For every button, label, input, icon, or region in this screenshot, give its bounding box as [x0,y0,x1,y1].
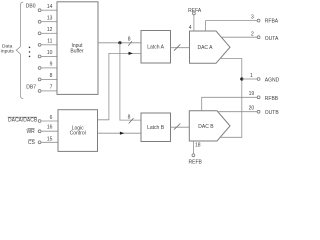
svg-text:DACA/DACB: DACA/DACB [8,118,38,124]
wire logic control to latch B [98,132,142,134]
svg-text:10: 10 [47,50,53,56]
bus slash 8 to latch A [128,36,132,45]
wire logic control to latch A [98,53,142,119]
pin 8 [38,73,57,81]
svg-text:RFBB: RFBB [265,96,279,102]
wire latch B to DAC B [171,124,190,130]
bus slash 8 to latch B [128,114,134,123]
arrow into latch B [120,132,124,135]
input buffer U1 [57,2,98,95]
svg-text:7: 7 [50,85,53,91]
svg-text:AGND: AGND [265,77,280,83]
pin DB0 terminal 14 [38,4,57,12]
svg-text:DB7: DB7 [26,85,36,91]
svg-text:OUTA: OUTA [265,36,279,42]
brace for data inputs [16,2,23,99]
svg-text:20: 20 [249,106,255,112]
svg-text:RFBA: RFBA [265,19,279,25]
wire data bus to latch A [98,42,141,44]
wire AGND bus between DACs [220,59,242,138]
wire and pin RFBA 3 [206,15,279,32]
logic control U2 [58,110,98,152]
svg-text:14: 14 [47,4,53,10]
pin AGND 1 [242,73,280,83]
latch B U4 [141,113,171,142]
svg-text:DAC B: DAC B [198,124,214,130]
svg-text:Latch B: Latch B [147,125,165,131]
svg-text:OUTB: OUTB [265,110,280,116]
DAC A U5 [190,31,231,63]
pin REFA 4 [188,8,202,31]
wire and pin OUTA 2 [221,32,279,43]
svg-text:16: 16 [47,125,53,131]
svg-text:6: 6 [50,115,53,121]
svg-text:CS: CS [28,140,36,146]
pin DACA/DACB 6 [8,115,58,124]
ellipsis dots [29,47,31,58]
svg-text:8: 8 [50,73,53,79]
latch A U3 [141,31,171,64]
svg-text:WR: WR [26,129,35,135]
wire and pin OUTB 20 [218,106,280,117]
svg-text:19: 19 [249,91,255,97]
svg-text:1: 1 [250,73,253,79]
svg-text:4: 4 [189,25,192,31]
svg-text:11: 11 [47,39,52,45]
junction node AGND [240,77,243,80]
pin 10 [38,50,57,58]
svg-text:15: 15 [47,137,53,143]
svg-text:DB0: DB0 [26,4,36,10]
svg-text:12: 12 [47,27,53,33]
pin 12 [38,27,57,35]
svg-text:8: 8 [128,36,131,42]
pin WR 16 [26,125,58,135]
svg-text:8: 8 [128,114,131,120]
wire latch A to DAC A [171,44,190,50]
svg-text:18: 18 [195,142,201,148]
svg-text:13: 13 [47,16,53,22]
svg-text:REFA: REFA [188,8,202,14]
svg-text:REFB: REFB [189,160,203,164]
junction node bus split [118,41,121,44]
pin CS 15 [28,137,58,147]
pin DB7 terminal 7 [38,85,57,93]
svg-text:2: 2 [251,32,254,38]
pin 13 [38,16,57,24]
svg-text:Control: Control [70,131,86,137]
svg-text:9: 9 [50,62,53,68]
label Data Inputs [1,44,15,55]
wire data bus branch to latch B [120,43,141,120]
arrow into latch A [129,52,133,55]
pin 9 [38,62,57,70]
svg-text:3: 3 [251,15,254,21]
svg-text:Buffer: Buffer [70,48,84,54]
pin REFB 18 [189,141,203,166]
pin 11 [38,39,57,47]
svg-text:Latch A: Latch A [147,45,164,51]
wire and pin RFBB 19 [202,91,279,111]
DAC B U6 [189,111,230,141]
svg-text:Inputs: Inputs [1,49,15,55]
svg-text:DAC A: DAC A [197,45,213,51]
